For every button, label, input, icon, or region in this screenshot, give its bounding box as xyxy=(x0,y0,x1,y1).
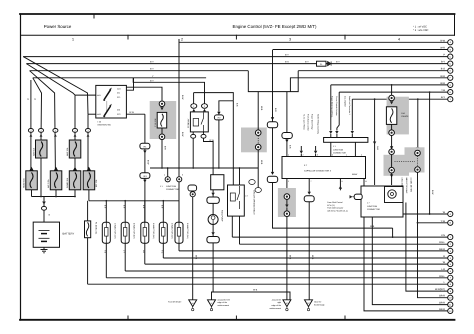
bottom column tick 3 xyxy=(344,316,346,320)
wire branch B2 xyxy=(418,222,448,224)
page arrow 374 xyxy=(373,142,376,145)
wire mid a to E7 xyxy=(300,146,302,158)
page arrow check mid xyxy=(285,205,288,208)
fuse element ALT-S xyxy=(55,172,58,188)
wire bus A7 xyxy=(331,84,448,86)
svg-text:2: 2 xyxy=(303,154,304,157)
ring connector IGN top xyxy=(159,101,165,107)
junction dot inj1 xyxy=(105,200,107,202)
svg-text:B-Y: B-Y xyxy=(150,79,154,82)
svg-text:Front left fender: Front left fender xyxy=(168,301,182,304)
capsule connector IA2 xyxy=(207,197,219,203)
fuse element ABS xyxy=(40,142,43,157)
svg-text:6 INJECTOR (6W): 6 INJECTOR (6W) xyxy=(152,223,155,239)
junction dot bus168 f xyxy=(239,167,241,169)
page arrow skid up xyxy=(339,186,342,189)
wire ID1 down xyxy=(272,128,274,172)
page arrow IF1 xyxy=(143,150,146,153)
page arrow IK3 xyxy=(143,180,146,183)
svg-text:with ECU (*2) (2H-15, A): with ECU (*2) (2H-15, A) xyxy=(327,209,348,212)
junction dot bus168 e xyxy=(218,167,220,169)
svg-text:To J/C (w/o TRAC): To J/C (w/o TRAC) xyxy=(303,114,306,130)
injector 5 coil xyxy=(177,228,180,237)
page arrow mil ring top xyxy=(416,147,419,150)
battery plate long 2 xyxy=(39,237,50,239)
wire column 4 xyxy=(74,95,76,140)
svg-text:(COMB. METER): (COMB. METER) xyxy=(410,178,413,193)
svg-text:W-B: W-B xyxy=(260,106,263,111)
wire injector col 1 xyxy=(105,201,107,278)
svg-text:C 16 IGN: C 16 IGN xyxy=(154,118,157,127)
junction box J-7 xyxy=(361,186,403,217)
junction dot 429 xyxy=(429,91,431,93)
svg-text:Around the: Around the xyxy=(272,298,281,301)
svg-text:ABS 60A: ABS 60A xyxy=(32,147,35,156)
svg-text:4 INJECTOR (4W): 4 INJECTOR (4W) xyxy=(132,223,135,239)
ring connector efi3 xyxy=(389,167,395,173)
connector pin arrow 2E xyxy=(87,134,90,137)
wire J1 feed a xyxy=(330,85,332,131)
capsule connector J7 left xyxy=(354,194,362,199)
switch blade tip 2 xyxy=(109,104,112,107)
MIL label xyxy=(401,178,413,195)
injector 4 body xyxy=(159,222,167,243)
wire bus A8 xyxy=(339,91,448,93)
ground 4 tail xyxy=(308,307,310,309)
wire injector col 5 xyxy=(178,201,180,248)
svg-text:* 2 : w/o VSC: * 2 : w/o VSC xyxy=(413,29,429,32)
frame border top xyxy=(20,13,455,15)
terminal circle C2 xyxy=(448,242,453,247)
svg-text:G: G xyxy=(449,84,451,87)
fuse element EFI2 xyxy=(87,172,90,188)
wire ring st1 stub xyxy=(194,93,234,104)
wire efi3 to J7 xyxy=(391,173,393,185)
junction dot bus3 xyxy=(74,196,76,198)
junction block gray J2 xyxy=(241,128,267,153)
junction dot B1 xyxy=(429,213,431,215)
wire J1a stub xyxy=(330,134,332,138)
junction block gray EFI xyxy=(387,97,409,135)
wire J1c stub xyxy=(351,134,353,138)
wire IF1 down xyxy=(144,149,146,173)
wire bus C2 xyxy=(240,243,448,245)
battery ground bar1 xyxy=(41,249,48,251)
junction dot inj2 xyxy=(124,200,126,202)
svg-text:W-B: W-B xyxy=(311,255,314,260)
page arrow J1b xyxy=(335,131,338,134)
ground triangle 4 xyxy=(305,300,313,307)
svg-text:JUNCTION: JUNCTION xyxy=(333,148,344,151)
svg-text:Starter Relay Assembly: Starter Relay Assembly xyxy=(317,114,320,134)
svg-text:From Skid Control: From Skid Control xyxy=(327,201,343,204)
wire cor pin down b xyxy=(239,216,241,244)
svg-text:3: 3 xyxy=(289,38,291,42)
svg-text:3: 3 xyxy=(182,174,183,177)
junction dot bus168 d xyxy=(161,167,163,169)
connector ring J1 b on trunk xyxy=(177,177,182,182)
svg-text:J: J xyxy=(450,98,451,101)
page arrow IH1 xyxy=(271,172,274,175)
capsule connector IE1 xyxy=(282,133,292,139)
fuse element HEAD xyxy=(30,172,33,188)
fuel pump inner ring xyxy=(211,216,215,220)
label junction connector under rings xyxy=(160,185,179,191)
header column tick 3 xyxy=(344,35,346,39)
svg-text:W-B: W-B xyxy=(370,225,375,228)
page arrow under ring xyxy=(160,107,163,110)
wire n-shape over capsule xyxy=(219,101,233,112)
wire relay pin down b xyxy=(203,132,205,134)
wire J7 noise to C9 xyxy=(406,203,448,292)
svg-text:IG1: IG1 xyxy=(117,92,120,95)
wire IE1 from Z-jog xyxy=(286,92,288,133)
junction dot inj4 xyxy=(162,200,164,202)
terminal circle A8 xyxy=(448,90,453,95)
svg-text:J 3: J 3 xyxy=(245,195,248,198)
dotted link cross horizontal xyxy=(395,160,416,162)
wire J1 feed b xyxy=(337,92,339,130)
wire B1 from J7 xyxy=(403,213,448,215)
svg-text:Data Link Connector 1: Data Link Connector 1 xyxy=(348,96,351,115)
ring connector J2 bottom xyxy=(255,144,261,150)
battery ground stem xyxy=(43,247,45,249)
wire IF2 capsule down to bus168 xyxy=(218,120,220,168)
svg-text:reinforcement: reinforcement xyxy=(218,304,230,307)
diode on bus A4 xyxy=(328,61,332,65)
wire bus A9 xyxy=(352,98,447,100)
battery bus xyxy=(32,196,76,198)
dotted link mil vertical xyxy=(417,156,419,167)
header band bottom rule xyxy=(21,34,455,36)
junction dot B2 xyxy=(417,222,419,224)
dotted link J2 xyxy=(257,136,259,144)
switch pivot 1 xyxy=(103,99,105,101)
battery plate short 1 xyxy=(41,233,47,235)
relay contact symbol xyxy=(201,113,204,132)
J-7 labels xyxy=(367,202,380,211)
svg-text:reinforcement: reinforcement xyxy=(269,307,281,310)
battery plate long 1 xyxy=(39,230,50,232)
small box J4 xyxy=(211,175,224,190)
ring connector J2 top xyxy=(255,130,261,136)
svg-text:6: 6 xyxy=(332,154,333,157)
svg-text:B-R: B-R xyxy=(164,146,167,150)
ring connector check top xyxy=(284,194,290,200)
wire bus A6 right part xyxy=(298,77,448,79)
fuse element DOME xyxy=(74,172,77,188)
wire ST2 trunk down xyxy=(144,114,146,143)
svg-text:AM2: AM2 xyxy=(97,113,101,116)
relay coil symbol xyxy=(193,119,198,127)
left column verticals xyxy=(23,57,96,171)
svg-text:B-Y: B-Y xyxy=(305,60,309,63)
wire IG2 pin to gray fuse box xyxy=(126,113,144,115)
ring connector under IH2 xyxy=(190,192,195,197)
pin arrow lower fuse 3 xyxy=(74,168,77,171)
ground 3 label xyxy=(269,298,281,309)
svg-text:EFI 15A: EFI 15A xyxy=(95,179,98,187)
wire mil down to C10 xyxy=(418,172,448,297)
svg-text:ST RELAY: ST RELAY xyxy=(187,118,190,128)
wire bus A5 B-O right xyxy=(298,70,448,72)
wire J2 down xyxy=(257,150,259,190)
battery ground bar2 xyxy=(42,250,46,252)
switch pivot 2 xyxy=(103,115,105,117)
terminal circle C3 xyxy=(448,248,453,253)
terminal circle A5 xyxy=(448,68,453,73)
wire Z-jog down xyxy=(248,71,298,92)
svg-text:7: 7 xyxy=(311,180,312,183)
page arrow J7 left xyxy=(350,195,353,198)
svg-text:5: 5 xyxy=(288,180,289,183)
wire B-W trunk xyxy=(178,42,180,251)
svg-text:Engine Control (5VZ- FE Except: Engine Control (5VZ- FE Except 2WD M/T) xyxy=(233,24,317,29)
svg-text:right: right xyxy=(277,301,281,304)
wire mil feed xyxy=(417,99,419,150)
terminal circle A2 xyxy=(448,47,453,52)
svg-text:8: 8 xyxy=(317,154,318,157)
wire J7 pin to C12 xyxy=(364,217,448,311)
connector oval relay a xyxy=(191,134,196,138)
wire IG1 to IGN fuse xyxy=(126,78,133,90)
page arrow IE3 xyxy=(217,112,220,115)
svg-text:ALT-S 5A: ALT-S 5A xyxy=(47,179,50,188)
wire cor pin up b xyxy=(239,168,241,185)
wire bus C4 xyxy=(163,257,447,259)
terminal circle C4 xyxy=(448,255,453,260)
ground 3 tail xyxy=(286,307,288,309)
wire box top right to ring xyxy=(126,87,162,101)
wire injector col 3 xyxy=(144,201,146,264)
junction block gray check xyxy=(278,188,296,217)
connector oval 2A xyxy=(28,129,33,133)
wire efi mid down xyxy=(391,136,393,150)
svg-text:JUNCTION: JUNCTION xyxy=(367,205,378,208)
wire efi low down xyxy=(391,155,393,168)
battery plate short 2 xyxy=(41,240,47,242)
svg-text:1: 1 xyxy=(346,154,347,157)
wire column 1 xyxy=(30,80,32,171)
wire capsule to pump xyxy=(212,203,214,214)
wire IK3 down xyxy=(144,178,146,222)
svg-text:Power Main Relay: Power Main Relay xyxy=(311,114,314,129)
terminal circle A9 xyxy=(448,97,453,102)
ground triangle 3 xyxy=(283,300,291,307)
wire relay oval b to J4 xyxy=(204,138,214,175)
wire IH1 down corner right xyxy=(273,183,393,229)
svg-text:1J: 1J xyxy=(33,98,36,100)
svg-text:HEAD 60A: HEAD 60A xyxy=(23,178,26,188)
E-7 labels xyxy=(304,164,357,176)
ring connector check bottom xyxy=(284,211,290,217)
connector oval 2E xyxy=(86,129,91,133)
connector oval relay b xyxy=(201,134,206,138)
wire trunk 233.3 down to COR xyxy=(232,101,234,185)
injector feed bus xyxy=(89,200,179,202)
svg-text:ST2: ST2 xyxy=(117,113,120,116)
svg-text:B-R: B-R xyxy=(236,103,239,107)
svg-text:11: 11 xyxy=(365,180,367,183)
svg-text:AM2 30A: AM2 30A xyxy=(66,147,69,156)
injector 4 coil xyxy=(162,228,165,237)
svg-text:3: 3 xyxy=(361,154,362,157)
svg-text:CAPSULAR CONNECTOR 3: CAPSULAR CONNECTOR 3 xyxy=(304,169,332,172)
page arrow efi xyxy=(390,101,393,104)
fuse element AM2 xyxy=(74,142,77,157)
pin arrow ST ring a xyxy=(192,109,195,112)
junction box E-7 xyxy=(282,157,366,179)
wire efi feed corner xyxy=(391,85,393,95)
junction dot 392 C1 xyxy=(392,236,394,238)
ring connector IGN bottom xyxy=(159,134,165,140)
svg-text:ST1: ST1 xyxy=(117,96,120,99)
frame border left xyxy=(20,14,22,320)
svg-text:IJ: IJ xyxy=(211,302,213,305)
fuse EFI main xyxy=(386,107,396,125)
svg-text:From Spark Control: From Spark Control xyxy=(307,114,310,131)
svg-text:CIRCUIT OPENING RELAY: CIRCUIT OPENING RELAY xyxy=(253,190,256,215)
fuse DOME xyxy=(69,171,81,190)
wire J-1 out a xyxy=(330,142,332,158)
wire column 4 upper xyxy=(26,64,95,96)
wire J1 feed c xyxy=(351,99,353,130)
svg-text:Cruise Control Actuator: Cruise Control Actuator xyxy=(335,96,338,116)
pin arrow lower fuse 4 xyxy=(88,168,91,171)
terminal circle B1 xyxy=(448,211,453,216)
terminal circle C11 xyxy=(448,302,453,307)
ring connector efi top xyxy=(389,95,395,101)
svg-text:W-B: W-B xyxy=(289,255,292,260)
svg-text:IN5W: IN5W xyxy=(352,173,357,176)
terminal circle C12 xyxy=(448,308,453,313)
ring connector efi mid xyxy=(389,130,395,136)
wire pump to capsule2 xyxy=(212,225,214,237)
wire J1 ring stub xyxy=(167,168,169,177)
header column tick 2 xyxy=(235,35,237,39)
pin arrow ST ring b xyxy=(203,109,206,112)
wire IE2 down to ground4 xyxy=(308,202,310,300)
page arrow J1c xyxy=(351,131,354,134)
page arrow battery xyxy=(42,202,46,205)
ring connector mil bottom xyxy=(415,167,421,173)
svg-text:Y-G: Y-G xyxy=(161,250,164,254)
wire check down to ground3 xyxy=(286,217,288,300)
wire IH2 down to ground1 xyxy=(192,197,194,300)
capsule connector IH2 xyxy=(188,185,197,191)
junction dot 418 xyxy=(417,98,419,100)
switch blade 1 xyxy=(104,90,110,100)
bottom column tick 1 xyxy=(127,316,129,320)
page arrow IA2 xyxy=(211,193,214,196)
wire col2 down xyxy=(40,158,42,197)
wire fuse4 down xyxy=(74,190,76,197)
svg-text:edge of the: edge of the xyxy=(218,301,227,304)
fuse ABS 60A xyxy=(36,140,48,158)
ground triangle 1 xyxy=(189,300,197,307)
svg-text:W-B: W-B xyxy=(260,160,263,165)
connector oval 2C xyxy=(53,129,58,133)
svg-text:W-B: W-B xyxy=(194,255,197,260)
injector 1 body xyxy=(102,222,110,243)
connector pin arrow 2C xyxy=(54,134,57,137)
switch blade 2 xyxy=(104,106,110,116)
svg-text:Around the left: Around the left xyxy=(218,298,231,301)
capsule connector IF2 xyxy=(214,115,223,120)
terminal circle A4 xyxy=(448,61,453,66)
fuel pump motor circle xyxy=(208,215,218,225)
terminal circle C5 xyxy=(448,262,453,267)
top border section tick xyxy=(93,14,95,18)
svg-text:Near the: Near the xyxy=(314,301,321,304)
wire E7 out c xyxy=(339,179,341,191)
wire bus C3 xyxy=(179,250,448,252)
terminal circle C7 xyxy=(448,275,453,280)
page arrow above ID1 xyxy=(271,117,274,120)
svg-text:5 INJECTOR (5W): 5 INJECTOR (5W) xyxy=(186,223,189,239)
fuse IGN xyxy=(157,112,167,128)
wire injector col 2 xyxy=(124,201,126,271)
svg-text:AM1: AM1 xyxy=(97,94,101,97)
injector 1 coil xyxy=(105,228,108,237)
wire bus C7 xyxy=(106,277,447,279)
page arrow efi ring3 top xyxy=(390,146,393,149)
wire slant D xyxy=(33,78,42,140)
from-skid text block xyxy=(327,201,348,212)
wire bus A2 W-R xyxy=(273,49,448,51)
frame border bottom xyxy=(20,319,455,321)
wire stub above ID1 xyxy=(272,114,274,117)
relay2 contact xyxy=(237,186,240,209)
wire slant C xyxy=(30,71,56,171)
wires below fuses to battery bus xyxy=(32,158,180,222)
terminal circle C1 xyxy=(448,235,453,240)
svg-text:FUEL PUMP: FUEL PUMP xyxy=(221,210,224,222)
page arrow mid b xyxy=(314,151,317,154)
wire arrow to capsule J7 xyxy=(353,196,355,198)
pin arrow lower fuse 2 xyxy=(55,168,58,171)
junction dot inj3 xyxy=(144,200,146,202)
svg-text:B-Y: B-Y xyxy=(336,60,340,63)
J3 dotted pair xyxy=(249,180,262,193)
battery box xyxy=(33,222,59,247)
svg-text:CONNECTOR: CONNECTOR xyxy=(367,208,380,211)
switch blade tip 1 xyxy=(109,88,112,91)
svg-text:B-R: B-R xyxy=(289,145,292,149)
pin arrow lower fuse 1 xyxy=(30,168,33,171)
junction block gray MIL xyxy=(405,147,425,172)
junction dot bus1 xyxy=(40,196,42,198)
fusible link box on bus A4 xyxy=(317,61,327,66)
svg-text:1: 1 xyxy=(72,38,74,42)
circuit opening relay box xyxy=(228,185,245,216)
page arrow IE2 xyxy=(308,192,311,195)
wire bus A4 B-Y xyxy=(26,63,447,65)
wire mid b to E7 xyxy=(315,146,317,158)
connector oval 2D xyxy=(73,129,78,133)
wire J1b stub xyxy=(336,134,338,138)
wire IE1 to E7 xyxy=(286,139,288,158)
wire col4 mid xyxy=(74,158,76,171)
wire drop 392 to C1 xyxy=(392,228,394,237)
svg-text:9: 9 xyxy=(342,180,343,183)
svg-text:INDICATOR LAMP: INDICATOR LAMP xyxy=(405,178,408,195)
junction dot 391 xyxy=(391,84,393,86)
junction dot bus168 a xyxy=(192,167,194,169)
ignition switch box xyxy=(96,85,127,118)
wire slant A xyxy=(23,57,88,115)
wire FL top xyxy=(87,201,89,221)
